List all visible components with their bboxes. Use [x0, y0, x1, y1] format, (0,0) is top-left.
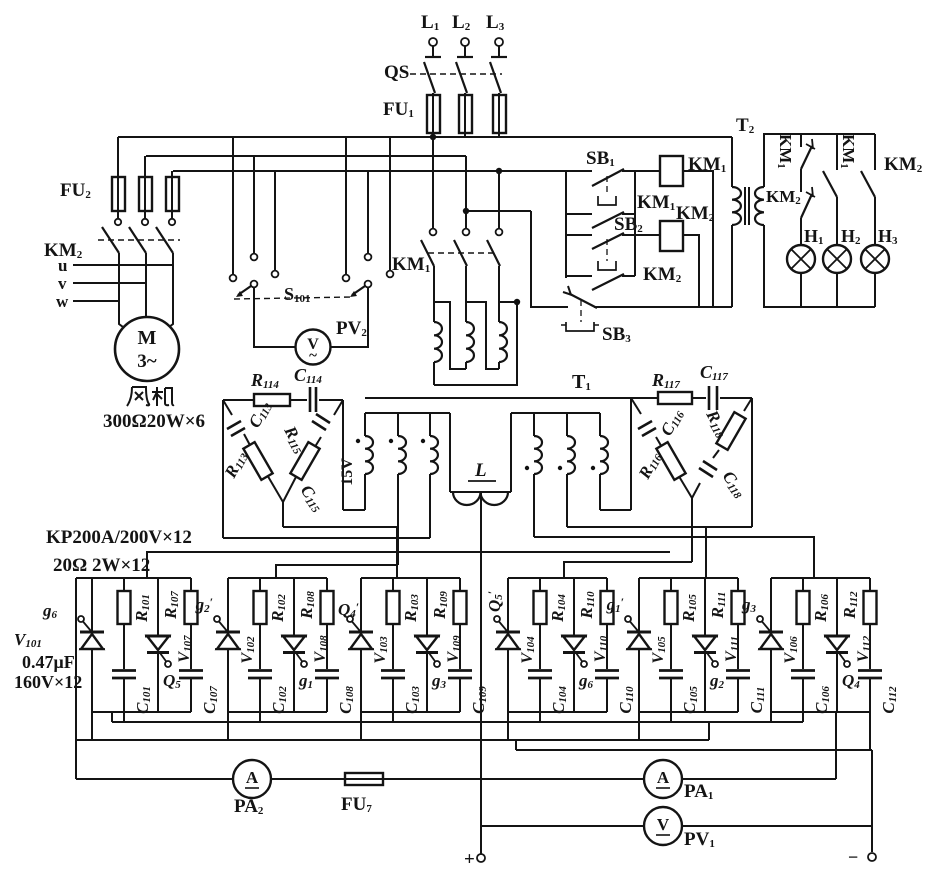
wire drop KM1-3 — [498, 171, 500, 228]
coil KM1 — [660, 156, 683, 186]
wire V112 branch down — [835, 712, 837, 779]
svg-text:−: − — [848, 847, 858, 867]
wire route h4 — [276, 565, 398, 578]
wire PA1 right — [682, 778, 836, 780]
wire right triangle top left — [631, 397, 658, 399]
thyristor V104 — [507, 578, 509, 740]
wire cell1 top rail — [76, 577, 191, 579]
capacitor C117 — [708, 386, 711, 410]
capacitor C106 — [791, 669, 815, 672]
transformer T2 primary — [732, 187, 741, 225]
wire cell3 riser — [392, 712, 394, 722]
capacitor C118 — [703, 461, 717, 470]
wire secondary right bus — [511, 412, 600, 414]
thyristor V105 — [638, 578, 640, 740]
wire lamp bottom rail — [764, 225, 875, 307]
wire drop S101 a — [232, 137, 234, 274]
svg-text:A: A — [246, 768, 259, 787]
wire route hE — [564, 562, 692, 578]
wire right triangle vertex down — [691, 498, 693, 562]
wire PV1 right — [682, 825, 872, 827]
wire PV2 right — [330, 288, 368, 347]
svg-text:V: V — [657, 815, 670, 834]
wire cell6 top rail — [771, 577, 870, 579]
resistor R117 — [658, 392, 692, 404]
wire route h1 — [283, 527, 397, 578]
coil KM2 — [660, 221, 683, 251]
wire route h2 — [223, 537, 430, 539]
wire PV1 left — [481, 825, 644, 827]
wire drop S101 d — [345, 137, 347, 274]
wire FU7 to PA1 — [383, 778, 644, 780]
capacitor C108 — [315, 669, 339, 672]
resistor R115 lower — [290, 442, 319, 480]
wire PA2 to FU7 — [271, 778, 345, 780]
wire cell1 bottom rail — [92, 711, 191, 713]
voltmeter PV2 — [296, 330, 331, 365]
resistor R110 — [606, 578, 608, 591]
resistor R111 — [737, 578, 739, 591]
switch S101 right pole — [343, 275, 350, 282]
svg-text:v: v — [58, 274, 67, 293]
winding T1 sec L1 — [364, 413, 366, 436]
voltmeter PV1 — [644, 807, 682, 845]
resistor R114 — [254, 394, 290, 406]
wire cell4 top rail — [508, 577, 607, 579]
wire tap phase2 to SB3 — [466, 210, 531, 212]
capacitor C107 — [179, 669, 203, 672]
contact KM1 aux — [566, 213, 592, 215]
fuse FU7 — [345, 778, 383, 780]
inductor L — [450, 491, 511, 493]
winding T1 sec L3 — [429, 413, 431, 436]
thyristor V110 — [573, 578, 575, 636]
node junction phase1 — [430, 134, 436, 140]
wire PV2 left — [254, 288, 296, 347]
capacitor C112 — [858, 669, 882, 672]
wire KM1 coil to right — [683, 171, 713, 307]
wire right triangle top mid — [692, 397, 706, 399]
wire triangle top edge right — [319, 399, 343, 401]
wire drop KM side terminal — [389, 137, 391, 270]
wire motor funnel — [119, 301, 131, 333]
resistor R103 — [392, 578, 394, 591]
svg-text:300Ω20W×6: 300Ω20W×6 — [103, 411, 205, 432]
capacitor C111 — [726, 669, 750, 672]
wire control right rail bottom — [731, 225, 733, 307]
wire bus phase1 — [118, 136, 732, 138]
resistor R108 — [326, 578, 328, 591]
svg-text:KM1: KM1 — [688, 154, 726, 175]
thyristor V107 — [157, 578, 159, 636]
wire lamp top rail — [764, 134, 875, 187]
capacitor C102 — [248, 669, 272, 672]
thyristor V103 — [360, 578, 362, 740]
wire cell5 bottom rail — [639, 711, 738, 713]
wire cell2 bottom rail — [228, 711, 327, 713]
svg-text:KM1: KM1 — [637, 192, 675, 213]
wire drop S101 c — [274, 171, 276, 267]
svg-text:0.47μF: 0.47μF — [22, 652, 75, 672]
wire triangle top edge left — [223, 399, 254, 401]
svg-text:M: M — [138, 327, 157, 349]
wire right triangle left side down — [630, 398, 632, 510]
wire T1 core line — [365, 397, 631, 399]
contact KM2 main — [115, 219, 121, 225]
ammeter PA2 — [233, 760, 271, 798]
thyristor V109 — [426, 578, 428, 636]
wire route hA — [600, 509, 631, 511]
svg-text:u: u — [58, 256, 67, 275]
wire left cathode rail — [75, 578, 77, 779]
wire triangle right diagonal — [334, 400, 343, 415]
winding T1 sec R3 — [599, 413, 601, 436]
thyristor V101 — [91, 578, 93, 740]
thyristor V106 — [770, 578, 772, 722]
wire cell2 riser — [259, 712, 261, 722]
winding T1 primary 3 — [499, 322, 507, 362]
wire cell5 top rail — [639, 577, 738, 579]
wire lamp branch1 — [800, 218, 802, 245]
wire right triangle left diagonal — [631, 398, 641, 414]
capacitor C109 — [448, 669, 472, 672]
wire cell4 riser — [539, 712, 541, 722]
resistor R104 — [539, 578, 541, 591]
wire T1 primary phase1 — [433, 266, 435, 322]
capacitor C101 — [112, 669, 136, 672]
resistor R113 — [243, 442, 272, 480]
resistor R118 — [716, 412, 745, 450]
node minus terminal — [868, 853, 876, 861]
svg-text:20Ω 2W×12: 20Ω 2W×12 — [53, 555, 150, 576]
resistor R116 — [656, 442, 685, 480]
capacitor C104 — [528, 669, 552, 672]
wire right triangle right side down — [751, 398, 753, 527]
winding T1 sec R2 — [566, 413, 568, 436]
wire T1 primary phase2 — [465, 266, 467, 322]
svg-text:w: w — [56, 292, 69, 311]
label fan (Chinese) — [127, 387, 174, 406]
resistor R109 — [459, 578, 461, 591]
wire bus phase2 — [146, 155, 466, 157]
pushbutton SB3 — [570, 294, 597, 308]
wire secondary left bus — [365, 412, 450, 414]
wire bus phase3 — [173, 170, 566, 172]
contact KM1 main — [430, 229, 437, 236]
wire right triangle right diagonal — [744, 398, 752, 411]
wire cell2 top rail — [228, 577, 327, 579]
resistor R101 — [123, 578, 125, 591]
wire route hB — [567, 526, 752, 528]
motor M — [115, 317, 179, 381]
wire right triangle top right — [720, 397, 752, 399]
wire T1 primary phase3 — [498, 266, 500, 322]
lamp H2 — [823, 245, 851, 273]
wire route hC — [534, 537, 814, 578]
svg-text:QS: QS — [384, 62, 409, 83]
capacitor C116 — [638, 421, 652, 429]
node junction phase3 — [496, 168, 502, 174]
wire sec L1 to triangle — [343, 509, 365, 511]
node L2 terminal — [461, 38, 469, 46]
thyristor V108 — [293, 578, 295, 636]
resistor R106 — [802, 578, 804, 591]
wire L right — [510, 413, 512, 492]
wire cell1 riser — [123, 712, 125, 722]
contact KM2 aux — [566, 275, 592, 277]
wire cell6 riser — [802, 712, 804, 722]
capacitor C113 — [227, 421, 241, 429]
wire route h3 — [147, 552, 670, 578]
capacitor C115 upper — [316, 414, 330, 423]
winding T1 sec L2 — [397, 413, 399, 436]
wire plus rail — [480, 492, 482, 854]
capacitor C103 — [381, 669, 405, 672]
winding T1 primary 2 — [466, 322, 474, 362]
resistor R107 — [190, 578, 192, 591]
wire L left — [449, 413, 451, 492]
capacitor C105 — [659, 669, 683, 672]
wire KM2 coil to right — [683, 235, 699, 307]
wire drop KM1-2 — [465, 156, 467, 228]
pushbutton SB1 — [566, 170, 592, 172]
wire triangle right side down — [342, 400, 344, 510]
switch QS — [424, 62, 435, 93]
thyristor V111 — [704, 578, 706, 636]
wire cell5 riser — [670, 712, 672, 722]
wire control inner rail — [634, 171, 636, 276]
node plus terminal — [477, 854, 485, 862]
lamp H3 — [861, 245, 889, 273]
switch S101 dashes — [234, 297, 352, 299]
wire drop KM1-1 — [432, 137, 434, 228]
wire cell3 top rail — [361, 577, 460, 579]
wire primary jog 3 — [434, 302, 517, 385]
thyristor V102 — [227, 578, 229, 740]
svg-text:160V×12: 160V×12 — [14, 672, 82, 692]
wire triangle vertex down — [282, 502, 284, 527]
node primary junction — [514, 299, 520, 305]
pushbutton SB2 — [566, 234, 592, 236]
wire cell5 feed — [705, 527, 707, 578]
transformer T2 core — [744, 187, 746, 225]
svg-text:15V: 15V — [339, 458, 356, 486]
svg-text:L: L — [474, 460, 487, 481]
resistor R102 — [259, 578, 261, 591]
fuse FU1 — [427, 95, 440, 133]
contact KM2 lamp branch3 — [874, 134, 876, 170]
wire cell4 bottom rail — [508, 711, 607, 713]
wire control bottom rail — [594, 306, 732, 308]
wire control left rail — [565, 171, 567, 278]
resistor R105 — [670, 578, 672, 591]
wire lamp branch2 — [836, 197, 838, 245]
lamp H1 — [787, 245, 815, 273]
svg-text:KP200A/200V×12: KP200A/200V×12 — [46, 527, 192, 548]
wire minus drop — [871, 750, 873, 852]
wire motor leads — [118, 253, 120, 301]
ammeter PA1 — [644, 760, 682, 798]
transformer T2 secondary — [755, 187, 764, 225]
wire control right rail top — [731, 137, 733, 187]
resistor R112 — [869, 578, 871, 591]
wire triangle left side down — [222, 400, 224, 538]
svg-text:~: ~ — [309, 348, 317, 364]
contact KM1 lamp branch1 — [800, 134, 802, 147]
wire cell6 bottom rail — [771, 711, 870, 713]
node L3 terminal — [495, 38, 503, 46]
wire cell3 bottom rail — [361, 711, 460, 713]
thyristor V112 — [836, 578, 838, 636]
wire lamp branch3 — [874, 197, 876, 245]
svg-text:+: + — [464, 849, 475, 870]
switch S101 left pole — [230, 275, 237, 282]
wire bus A — [112, 721, 803, 723]
contact KM1 lamp branch2 — [836, 134, 838, 170]
svg-text:3~: 3~ — [137, 351, 157, 372]
capacitor C114 — [309, 387, 312, 412]
wire triangle top edge mid — [290, 399, 307, 401]
node L1 terminal — [429, 38, 437, 46]
winding T1 primary 1 — [434, 322, 442, 362]
wire triangle left diagonal — [223, 400, 232, 415]
svg-text:KM1: KM1 — [392, 254, 430, 275]
wire primary jog 2 — [466, 302, 499, 369]
capacitor C110 — [595, 669, 619, 672]
wire drop S101 b — [253, 156, 255, 253]
contact KM2 lamp branch1 — [800, 169, 802, 192]
wire bus B — [76, 739, 709, 741]
fuse FU2 — [117, 137, 119, 219]
wire primary jog 1 — [434, 302, 466, 369]
svg-text:A: A — [657, 768, 670, 787]
wire bus C — [515, 740, 517, 750]
winding T1 sec R1 — [533, 413, 535, 436]
wire ammeter run — [76, 778, 233, 780]
